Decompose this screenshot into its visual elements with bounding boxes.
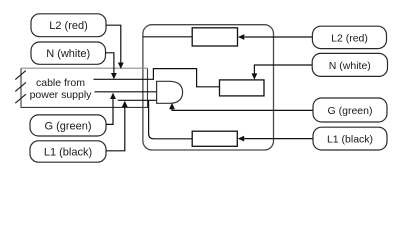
wire from left L1 label up to L1 conductor [106,107,125,151]
top receptacle rectangle [192,28,237,46]
conductor L1 (black): to gate bottom [118,99,157,101]
wire from left G label up to G conductor [106,99,113,124]
right label L2 (red) [312,26,386,48]
arrowhead up onto L1 conductor [122,101,128,107]
svg-text:N (white): N (white) [46,48,90,60]
junction box (large rounded enclosure) [143,25,274,150]
cable from power supply box [21,68,148,107]
branch wire from L1 conductor down to bottom receptacle [149,100,193,139]
svg-text:L2 (red): L2 (red) [49,20,88,32]
cable hatch mark 3 [15,94,26,103]
middle device rectangle [220,80,265,96]
right label G (green) [313,98,387,122]
arrowhead down into middle device [252,73,258,79]
conductor G (green): into gate input [95,91,157,93]
svg-text:L1 (black): L1 (black) [327,134,373,146]
svg-text:power supply: power supply [30,89,93,101]
arrowhead left into bottom receptacle [238,136,244,142]
cable hatch mark 2 [15,82,26,91]
arrowhead down onto N conductor [111,73,117,79]
svg-text:N (white): N (white) [329,60,371,72]
svg-text:L2 (red): L2 (red) [331,32,368,44]
arrowhead up onto G conductor [110,93,116,99]
conductor N (white): jog over gate into middle device [94,69,220,87]
arrowhead down onto cable top conductor [118,63,124,70]
svg-text:L1 (black): L1 (black) [44,146,92,158]
svg-text:G (green): G (green) [44,121,91,133]
left label L2 (red) [31,14,106,37]
left label L1 (black) [30,141,106,162]
wire from right L1 label to bottom receptacle [244,138,313,140]
bottom receptacle rectangle [192,131,237,146]
left label G (green) [30,115,106,136]
wire from left L2 label to cable [106,25,121,63]
arrowhead left into top receptacle [238,34,244,40]
svg-text:G (green): G (green) [328,105,373,117]
wire from left N label to cable [106,53,114,73]
wire from right G label to gate bottom [172,109,313,111]
right label L1 (black) [313,127,387,150]
gate / device symbol (D-shape) [157,81,183,103]
right label N (white) [312,53,387,76]
svg-text:cable from: cable from [36,77,85,89]
wire from right L2 label to top receptacle [244,36,312,38]
arrowhead up onto gate bottom [169,103,175,109]
cable box top edge / top conductor [21,67,148,69]
wire from right N label down into middle device [254,65,312,74]
left label N (white) [31,42,106,64]
wire from box left edge to top receptacle [143,36,192,38]
cable hatch mark 1 [15,71,26,80]
